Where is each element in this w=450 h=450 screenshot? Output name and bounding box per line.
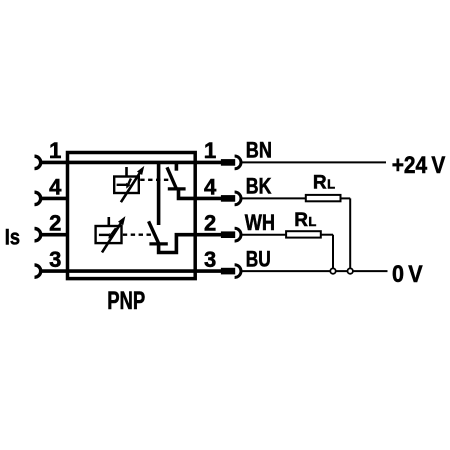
sensor element B2 inner arrow <box>111 228 116 234</box>
sensor element B1 body <box>114 177 139 194</box>
wire pin4 box to right connector <box>194 197 222 201</box>
wire pin2 box to right connector <box>194 233 222 237</box>
svg-text:4: 4 <box>49 174 62 199</box>
wire BK to resistor RL1 <box>241 197 306 199</box>
svg-text:3: 3 <box>204 247 216 272</box>
wire RL1 drop to 0V <box>349 198 351 271</box>
switch S2 contact bar <box>149 242 167 245</box>
svg-text:BN: BN <box>246 137 272 162</box>
svg-text:L: L <box>327 177 335 192</box>
wire switch S2 to pin 2 exit <box>159 235 196 253</box>
sensor element B2 inner line <box>99 234 109 236</box>
wire BU to 0V <box>241 270 388 272</box>
plug pin right 4 <box>221 195 235 202</box>
plug pin right 1 <box>221 159 235 166</box>
sensor box outline U1 <box>68 153 196 279</box>
socket contact left pin 2 <box>35 229 41 241</box>
sensor element B2 top stub <box>108 217 111 226</box>
wire RL1 to corner <box>341 197 351 199</box>
svg-text:1: 1 <box>49 138 61 163</box>
svg-text:BK: BK <box>246 173 272 198</box>
internal rail from pin1 to switch S2 <box>157 162 161 225</box>
sensor element B2 body <box>96 226 122 243</box>
sensor element B2 actuation arrow <box>102 223 121 253</box>
socket contact left pin 3 <box>35 265 41 277</box>
svg-text:3: 3 <box>49 247 61 272</box>
switch S1 blade <box>167 167 176 188</box>
wire pin1 left through box to right connector <box>40 161 221 165</box>
svg-text:+24 V: +24 V <box>392 152 446 179</box>
svg-text:0 V: 0 V <box>392 261 423 288</box>
switch S1 contact bar <box>168 187 186 190</box>
plug pin right 2 <box>221 231 235 238</box>
svg-text:Is: Is <box>5 224 20 249</box>
svg-text:2: 2 <box>204 211 216 236</box>
wire pin3 left through box to right connector <box>40 269 221 273</box>
wire RL2 to corner <box>321 234 333 236</box>
switch S1 feed stub <box>175 162 179 170</box>
svg-text:BU: BU <box>246 246 271 271</box>
plug pin right 3 <box>221 268 235 275</box>
plug socket arc right 2 <box>235 228 241 241</box>
sensor element B1 top stub <box>125 167 128 177</box>
svg-text:R: R <box>294 210 308 231</box>
svg-text:1: 1 <box>204 138 216 163</box>
dashed coupling B2 to S2 <box>123 234 152 236</box>
resistor RL1 <box>306 195 341 201</box>
wire RL2 drop to 0V <box>332 235 334 271</box>
plug socket arc right 1 <box>235 156 241 169</box>
junction node WH/0V <box>330 268 335 273</box>
svg-text:WH: WH <box>245 210 275 235</box>
svg-text:2: 2 <box>49 211 61 236</box>
junction node BK/0V <box>348 268 353 273</box>
dashed coupling B1 to S1 <box>140 179 170 181</box>
wire pin4 left to box <box>40 197 69 201</box>
wire pin2 left to box <box>40 233 69 237</box>
sensor element B1 actuation arrow <box>121 172 140 202</box>
svg-text:L: L <box>308 214 316 229</box>
resistor RL2 <box>286 231 321 237</box>
socket contact left pin 1 <box>35 156 41 168</box>
plug socket arc right 3 <box>235 265 241 278</box>
svg-text:PNP: PNP <box>107 287 145 315</box>
switch S2 blade <box>149 221 159 243</box>
socket contact left pin 4 <box>35 192 41 204</box>
wire BN to +24V <box>241 161 386 163</box>
sensor element B1 inner arrow <box>128 179 130 184</box>
wire switch S1 to pin 4 exit <box>179 189 196 199</box>
sensor element B1 inner line <box>117 184 127 186</box>
svg-text:R: R <box>313 173 327 194</box>
plug socket arc right 4 <box>235 192 241 205</box>
svg-text:4: 4 <box>204 174 217 199</box>
wire WH to resistor RL2 <box>241 234 286 236</box>
